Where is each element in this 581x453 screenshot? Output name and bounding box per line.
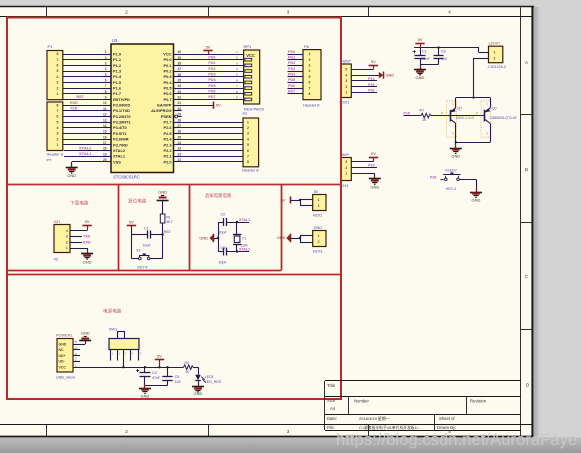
svg-text:P14: P14	[368, 164, 374, 168]
svg-text:27: 27	[178, 124, 182, 128]
U3 pin 21 stub (right, P2.0)	[174, 161, 182, 163]
wire P7 pin to U3 pin 16	[63, 139, 103, 141]
junction dot bottom rail	[455, 141, 457, 143]
wire P1 pin to U3 pin 7	[63, 88, 103, 90]
svg-text:Y1: Y1	[242, 237, 246, 241]
svg-text:PD4: PD4	[288, 73, 296, 77]
svg-text:21: 21	[178, 158, 182, 162]
svg-text:P1.1: P1.1	[113, 57, 122, 62]
U3 pin 1 stub (left, P1.0)	[103, 54, 111, 56]
svg-text:P1.7: P1.7	[113, 91, 121, 96]
svg-text:31: 31	[178, 101, 182, 105]
svg-text:PD5: PD5	[288, 78, 295, 82]
wire U3 P2.5 to header P2	[182, 133, 243, 135]
svg-text:GND: GND	[158, 189, 167, 194]
svg-text:8: 8	[105, 90, 107, 94]
junction dot 5V rail / C8	[437, 46, 439, 48]
svg-text:4: 4	[57, 75, 59, 79]
svg-text:1: 1	[57, 143, 59, 147]
wire U3 VCC pin40 to RP1 pin1	[182, 54, 244, 56]
svg-text:C8: C8	[441, 50, 446, 54]
svg-text:40: 40	[178, 50, 182, 54]
Q? left collector	[450, 119, 456, 123]
svg-text:Header 8: Header 8	[303, 103, 320, 108]
svg-text:XZ: XZ	[54, 258, 60, 262]
GND power port arrow	[379, 72, 383, 78]
svg-text:GND: GND	[314, 226, 322, 230]
svg-text:C3: C3	[422, 50, 427, 54]
wire POWER1 GND pin up to ground	[73, 344, 85, 346]
svg-text:GND: GND	[416, 75, 425, 80]
power 5V above VCC wire	[208, 51, 210, 54]
svg-text:1: 1	[345, 91, 347, 95]
U3 pin 13 stub (left, P3.3/INT1)	[103, 122, 111, 124]
svg-text:GND: GND	[194, 391, 203, 396]
svg-text:GND: GND	[199, 236, 208, 241]
ground for JKIP	[374, 175, 376, 179]
P6 pin 7 stub wire	[288, 88, 304, 90]
svg-text:P3.3/INT1: P3.3/INT1	[113, 120, 131, 125]
svg-text:104: 104	[175, 380, 181, 384]
svg-text:KEY-4: KEY-4	[446, 187, 456, 191]
U3 pin 36 stub (right, P0.3)	[174, 76, 182, 78]
GND port bar HZX3	[286, 234, 290, 241]
wire cap bottoms junction	[420, 64, 439, 66]
svg-text:Title: Title	[327, 383, 336, 388]
svg-text:SW1: SW1	[109, 328, 117, 332]
svg-text:UD-: UD-	[59, 360, 66, 364]
wire XZ1 pin2 RXD	[70, 242, 82, 244]
capacitor C3b (bottom 30pF)	[218, 251, 224, 253]
wire U3 P2.7 to header P2	[182, 122, 243, 124]
svg-text:2: 2	[345, 166, 347, 170]
wire gnd port to cap rail	[214, 238, 218, 240]
U3 pin 38 stub (right, P0.1)	[174, 65, 182, 67]
connector XZ1 body	[54, 225, 70, 253]
P6 pin 2 stub wire	[288, 59, 304, 61]
svg-text:USB_micro: USB_micro	[56, 376, 75, 380]
svg-text:1: 1	[494, 51, 496, 55]
svg-text:20: 20	[103, 158, 107, 162]
svg-text:GND: GND	[67, 173, 76, 178]
wire GND to HZX3	[291, 238, 301, 240]
svg-text:4: 4	[309, 69, 311, 73]
U3 pin 35 stub (right, P0.4)	[174, 82, 182, 84]
wire HZNT pin1	[351, 92, 377, 94]
svg-text:HZX3: HZX3	[313, 249, 323, 253]
P6 pin 6 stub wire	[288, 82, 304, 84]
wire JKIP pin2	[351, 167, 377, 169]
svg-text:P0.1: P0.1	[163, 63, 172, 68]
svg-text:2: 2	[309, 58, 311, 62]
svg-text:U3: U3	[112, 38, 118, 43]
ground below C4 C5	[144, 386, 146, 388]
svg-text:5V: 5V	[314, 190, 319, 194]
svg-text:1K: 1K	[422, 118, 427, 122]
left rail in crystal block	[218, 222, 220, 252]
svg-text:P3.6/WR: P3.6/WR	[113, 137, 129, 142]
svg-text:LED_RED: LED_RED	[205, 380, 222, 384]
svg-text:2: 2	[494, 56, 496, 60]
wire key to ground	[459, 179, 476, 181]
svg-text:Q?: Q?	[492, 107, 497, 111]
U3 pin 40 stub (right, VCC)	[174, 54, 182, 56]
wire P1 pin to U3 pin 8	[63, 93, 103, 95]
LED1 emission arrows	[201, 377, 204, 380]
svg-text:2: 2	[125, 429, 128, 434]
U3 pin 34 stub (right, P0.5)	[174, 88, 182, 90]
junction dot SW1 to rail	[122, 366, 124, 368]
svg-text:Header 8: Header 8	[47, 151, 64, 156]
svg-text:File:: File:	[327, 425, 335, 430]
svg-text:3: 3	[345, 160, 347, 164]
svg-text:Number: Number	[354, 398, 369, 403]
svg-text:EA/VPP: EA/VPP	[157, 103, 172, 108]
svg-text:35: 35	[178, 79, 182, 83]
svg-text:2: 2	[57, 86, 59, 90]
right edge shadow	[534, 7, 540, 438]
U3 pin 4 stub (left, P1.3)	[103, 71, 111, 73]
svg-text:5V: 5V	[206, 45, 211, 50]
Q? right emitter	[485, 108, 491, 112]
svg-text:GND: GND	[386, 73, 395, 78]
wire P7 pin to U3 pin 11	[63, 110, 103, 112]
connector POWER1 body	[57, 339, 73, 373]
svg-text:23: 23	[178, 147, 182, 151]
capacitor C1 plates	[132, 234, 148, 236]
svg-text:34: 34	[178, 84, 182, 88]
wire JKIP pin3 to 5V	[351, 161, 373, 163]
svg-text:Q?: Q?	[458, 107, 463, 111]
svg-text:2: 2	[318, 204, 320, 208]
wire P7 pin to U3 pin 10	[63, 105, 103, 107]
svg-text:GND: GND	[277, 235, 286, 240]
svg-text:HZNT: HZNT	[341, 60, 352, 64]
wire HZNT pin3	[351, 80, 377, 82]
wire 5V rail down in reset block	[131, 226, 133, 259]
svg-text:17: 17	[103, 141, 107, 145]
svg-text:2018/3/19 星期一: 2018/3/19 星期一	[359, 415, 390, 421]
svg-text:R2: R2	[185, 361, 190, 365]
svg-text:P0.0: P0.0	[163, 57, 171, 62]
wire P7 pin to U3 pin 12	[63, 116, 103, 118]
svg-text:XTAL2: XTAL2	[79, 145, 92, 150]
svg-text:PD7: PD7	[288, 90, 295, 94]
svg-text:PD3: PD3	[288, 67, 295, 71]
wire RST net stub to U3 pin 9	[63, 99, 103, 101]
svg-text:4K7: 4K7	[166, 220, 172, 224]
svg-text:5V: 5V	[371, 59, 376, 64]
resistor R2 zigzag (1K)	[182, 367, 184, 369]
wire key left to 5V rail	[132, 258, 139, 260]
svg-text:C1: C1	[144, 227, 149, 231]
svg-text:3: 3	[57, 81, 59, 85]
wire U3 P0.6 to RP1	[182, 93, 244, 95]
wire U3 P0.1 to RP1	[182, 65, 244, 67]
U3 pin 6 stub (left, P1.5)	[103, 82, 111, 84]
svg-text:P7: P7	[47, 157, 53, 162]
wire P1 pin to U3 pin 5	[63, 76, 103, 78]
svg-text:4: 4	[345, 73, 347, 77]
svg-text:3: 3	[105, 61, 107, 65]
svg-text:GND: GND	[451, 154, 460, 159]
svg-text:8550-2.5-B: 8550-2.5-B	[456, 116, 474, 120]
capacitor C2 (top 30pF)	[218, 222, 224, 224]
svg-text:5V: 5V	[216, 103, 221, 108]
svg-text:7: 7	[57, 58, 59, 62]
svg-text:Revision: Revision	[470, 398, 487, 403]
svg-text:36: 36	[178, 73, 182, 77]
svg-text:P2.3: P2.3	[163, 142, 172, 147]
svg-text:1: 1	[318, 234, 320, 238]
svg-text:5V: 5V	[157, 353, 162, 358]
wire P1 pin to U3 pin 4	[63, 71, 103, 73]
power 5V above C3	[420, 43, 422, 48]
svg-text:XTAL2: XTAL2	[113, 148, 126, 153]
junction dot HZX1	[299, 199, 301, 201]
wire key right to RST stem	[150, 258, 163, 260]
title block outline	[325, 380, 521, 382]
svg-text:4: 4	[105, 67, 107, 71]
svg-text:5: 5	[57, 120, 59, 124]
wire into resistor R?	[404, 115, 422, 117]
svg-text:VCC: VCC	[59, 366, 67, 370]
svg-text:32: 32	[178, 96, 182, 100]
svg-text:8: 8	[57, 52, 59, 56]
sheet inner border right	[520, 8, 522, 437]
svg-text:电源电路: 电源电路	[103, 308, 122, 315]
svg-text:C5: C5	[175, 375, 180, 379]
svg-text:18: 18	[103, 147, 107, 151]
U3 pin 22 stub (right, P2.1)	[174, 156, 182, 158]
svg-text:1: 1	[57, 92, 59, 96]
svg-text:P2.0: P2.0	[163, 159, 171, 164]
svg-text:P2.2: P2.2	[163, 148, 172, 153]
svg-text:RST: RST	[164, 230, 172, 234]
svg-text:STC89C51RC: STC89C51RC	[113, 174, 140, 179]
U3 pin 17 stub (left, P3.7/RD)	[103, 144, 111, 146]
sheet outer border right	[531, 7, 533, 437]
svg-text:https://blog.csdn.net/AuroraFa: https://blog.csdn.net/AuroraFaye	[336, 430, 577, 449]
svg-text:P1.4: P1.4	[113, 74, 122, 79]
svg-text:C3: C3	[221, 246, 226, 250]
svg-text:5V: 5V	[129, 219, 134, 224]
svg-text:P3.7/RD: P3.7/RD	[113, 142, 128, 147]
wire bottom rail to ground	[455, 142, 457, 147]
svg-text:22uF: 22uF	[422, 57, 431, 61]
svg-text:C8550S6 (TO-92: C8550S6 (TO-92	[490, 116, 517, 120]
header P7 body	[47, 102, 63, 151]
U3 pin 12 stub (left, P3.2/INT0)	[103, 116, 111, 118]
U3 pin 9 stub (left, RST/VPD)	[103, 99, 111, 101]
wire VSS pin 20 to ground	[72, 161, 103, 163]
U3 pin 29 stub (right, PSEN)	[174, 116, 182, 118]
wire R2 to LED1	[193, 367, 198, 369]
svg-text:POWER1: POWER1	[56, 334, 72, 338]
wire 5V to HZX1	[291, 200, 301, 202]
svg-text:5: 5	[57, 69, 59, 73]
svg-text:P0.6: P0.6	[163, 91, 172, 96]
Q? left selection box	[447, 101, 457, 137]
svg-text:12M: 12M	[241, 243, 248, 247]
U3 pin 3 stub (left, P1.2)	[103, 65, 111, 67]
svg-text:5V: 5V	[85, 219, 90, 224]
wire XTAL1 to U3 pin 19	[64, 156, 103, 158]
U3 PSEN pin inversion circle	[175, 115, 178, 118]
svg-text:1: 1	[247, 120, 249, 124]
P6 pin 1 stub wire	[288, 54, 304, 56]
junction dot crystal gnd	[217, 237, 219, 239]
red divider reset/crystal	[189, 184, 191, 270]
svg-text:3: 3	[287, 10, 290, 15]
svg-text:7: 7	[309, 86, 311, 90]
wire P7 pin to U3 pin 14	[63, 127, 103, 129]
svg-text:24: 24	[178, 141, 182, 145]
U3 pin 33 stub (right, P0.6)	[174, 93, 182, 95]
wire rail to LED0 pin1	[478, 48, 480, 53]
svg-text:VCC: VCC	[163, 51, 171, 56]
sheet inner border bottom	[0, 424, 532, 426]
svg-text:14: 14	[103, 124, 107, 128]
ground below transistors	[455, 144, 457, 148]
svg-text:P2.1: P2.1	[163, 154, 172, 159]
svg-text:2: 2	[125, 10, 128, 15]
svg-text:P1: P1	[48, 44, 54, 49]
key KLED7 button symbol	[445, 178, 448, 181]
svg-text:1: 1	[345, 172, 347, 176]
U3 pin 16 stub (left, P3.6/WR)	[103, 139, 111, 141]
svg-text:LED0?: LED0?	[489, 42, 501, 46]
svg-text:28: 28	[178, 118, 182, 122]
svg-text:1: 1	[105, 50, 107, 54]
svg-text:R1: R1	[166, 215, 171, 219]
transistor Q? left (8550) base bar	[450, 110, 452, 122]
svg-text:NC: NC	[59, 348, 65, 352]
svg-text:9: 9	[105, 96, 107, 100]
U3 pin 37 stub (right, P0.2)	[174, 71, 182, 73]
svg-text:P2.6: P2.6	[163, 125, 172, 130]
switch SW1 body	[109, 339, 139, 350]
top zone ticks	[46, 7, 48, 16]
P6 pin 3 stub wire	[288, 65, 304, 67]
svg-text:TXD: TXD	[83, 235, 91, 239]
svg-text:8: 8	[57, 103, 59, 107]
wire XZ1 pin4 to 5V	[70, 230, 87, 232]
sheet outer border bottom	[0, 436, 534, 438]
svg-text:P3.5/T1: P3.5/T1	[113, 131, 127, 136]
svg-text:P1.5: P1.5	[113, 80, 122, 85]
svg-text:38: 38	[178, 61, 182, 65]
svg-text:12: 12	[103, 113, 107, 117]
sheet inner border top	[0, 16, 532, 18]
red divider crystal right edge	[281, 184, 283, 270]
wire XZ1 pin3 TXD	[70, 236, 82, 238]
capacitor C8 (104)	[438, 48, 440, 56]
transistor Q? right (C8550S6) base bar	[484, 110, 486, 122]
wire P1 pin to U3 pin 2	[63, 59, 103, 61]
svg-text:PD3: PD3	[208, 73, 215, 77]
wire U3 P0.3 to RP1	[182, 76, 244, 78]
bottom gray gradient band	[0, 438, 581, 453]
svg-text:10uF: 10uF	[143, 243, 152, 247]
svg-text:2: 2	[105, 56, 107, 60]
ground for key	[476, 188, 478, 192]
svg-text:XZ1: XZ1	[54, 220, 61, 224]
U3 pin 11 stub (left, P3.1/TXD)	[103, 110, 111, 112]
svg-text:4: 4	[66, 229, 68, 233]
MCU U3 body	[111, 44, 174, 173]
connector HZX3 body	[313, 231, 326, 247]
svg-text:K1: K1	[137, 248, 141, 252]
U3 pin 20 stub (left, VSS)	[103, 161, 111, 163]
svg-text:ALE/PROG: ALE/PROG	[151, 108, 171, 113]
junction dot HZX3	[299, 237, 301, 239]
wire P7 pin to U3 pin 17	[63, 144, 103, 146]
wire U3 P2.1 to header P2	[182, 156, 243, 158]
U3 pin 28 stub (right, P2.7)	[174, 122, 182, 124]
svg-text:5V: 5V	[418, 37, 423, 42]
svg-text:XTAL1: XTAL1	[239, 218, 250, 222]
wire U3 P0.5 to RP1	[182, 88, 244, 90]
svg-text:4: 4	[247, 137, 249, 141]
junction dots crystal	[236, 221, 238, 223]
wire P1 pin to U3 pin 3	[63, 65, 103, 67]
svg-text:P0.3: P0.3	[163, 74, 172, 79]
svg-text:3: 3	[66, 235, 68, 239]
svg-text:6: 6	[57, 64, 59, 68]
svg-text:3: 3	[345, 79, 347, 83]
svg-text:PD6: PD6	[208, 90, 215, 94]
svg-text:P3.1/TXD: P3.1/TXD	[113, 108, 130, 113]
wire HZNT pin2	[351, 86, 377, 88]
svg-text:VSS: VSS	[113, 159, 121, 164]
wire U3 P2.6 to header P2	[182, 127, 243, 129]
svg-text:JKIP: JKIP	[341, 153, 349, 157]
RP1 internal resistor 6	[245, 87, 252, 90]
svg-text:PD2: PD2	[288, 61, 295, 65]
U3 pin 8 stub (left, P1.7)	[103, 93, 111, 95]
svg-text:C2: C2	[221, 213, 226, 217]
wire R1 to RST node and key	[162, 223, 164, 259]
U3 pin 24 stub (right, P2.3)	[174, 144, 182, 146]
svg-text:XTAL1: XTAL1	[79, 151, 92, 156]
header P6 body	[303, 50, 321, 100]
red divider middle row bottom	[7, 270, 282, 272]
sheet outer border top	[0, 6, 534, 8]
wire U3 P2.4 to header P2	[182, 139, 243, 141]
svg-text:5: 5	[105, 73, 107, 77]
svg-text:P1.2: P1.2	[113, 63, 122, 68]
svg-text:P1.6: P1.6	[113, 85, 122, 90]
RP1 internal resistor 1	[245, 58, 252, 61]
red divider download/reset	[118, 184, 120, 270]
svg-text:PD6: PD6	[288, 84, 295, 88]
svg-text:PD1: PD1	[208, 61, 215, 65]
svg-text:6: 6	[309, 81, 311, 85]
U3 pin 25 stub (right, P2.4)	[174, 139, 182, 141]
capacitor C5 (104)	[167, 367, 169, 377]
ground in download block	[87, 250, 89, 254]
ground below LED1	[198, 383, 200, 387]
svg-text:B: B	[525, 167, 528, 172]
svg-text:P2.5: P2.5	[163, 131, 172, 136]
svg-text:1: 1	[318, 198, 320, 202]
U3 pin 39 stub (right, P0.0)	[174, 59, 182, 61]
svg-text:P0.5: P0.5	[163, 85, 172, 90]
wire HZNT pin4 to GND port	[351, 75, 379, 77]
svg-text:6: 6	[57, 115, 59, 119]
svg-text:P6: P6	[304, 44, 310, 49]
